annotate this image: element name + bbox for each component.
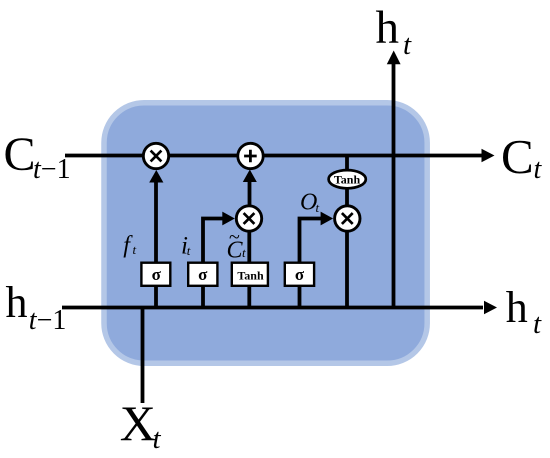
arrowhead Ot into multiply-3 (321, 212, 334, 226)
svg-text:t: t (133, 242, 137, 257)
gate box sigma-1 (forget) (141, 263, 170, 286)
wire multiply-2 to add (248, 181, 252, 206)
wire Xt input vertical (141, 308, 145, 404)
gate box Tanh (candidate) (232, 263, 268, 286)
wire h-line (hidden state, horizontal bottom) (62, 306, 483, 310)
svg-text:h: h (6, 278, 28, 327)
arrowhead ft into multiply-1 (149, 170, 163, 183)
svg-text:t−1: t−1 (33, 154, 71, 185)
wire output gate Ot with elbow (300, 219, 325, 308)
svg-text:t: t (242, 245, 246, 260)
svg-text:Tanh: Tanh (334, 173, 361, 187)
arrowhead it into multiply-2 (222, 212, 235, 226)
wire candidate C~t vertical (247, 206, 251, 308)
svg-text:t: t (533, 308, 542, 340)
svg-text:t: t (153, 423, 162, 455)
tanh ellipse (329, 170, 366, 188)
svg-text:t: t (403, 29, 412, 61)
wire C-line (cell state, horizontal top) (65, 154, 483, 158)
svg-text:h: h (376, 2, 400, 54)
svg-text:σ: σ (198, 265, 208, 284)
wire tanh branch vertical (C-line to h-line) (345, 156, 349, 308)
wire input gate it with elbow (203, 219, 226, 308)
svg-text:Tanh: Tanh (237, 269, 264, 283)
svg-text:t: t (316, 200, 320, 215)
gate box sigma-2 (input) (188, 263, 217, 286)
svg-text:σ: σ (152, 265, 162, 284)
svg-text:σ: σ (295, 265, 305, 284)
svg-text:~: ~ (229, 227, 240, 249)
multiply node 3 (output) (335, 206, 360, 231)
svg-text:C: C (4, 128, 36, 181)
svg-text:X: X (120, 395, 156, 451)
arrowhead h-line to ht (484, 301, 497, 314)
arrowhead into add (243, 170, 257, 183)
arrowhead ht up (387, 51, 401, 65)
wire forget gate ft vertical (154, 181, 158, 308)
svg-text:t−1: t−1 (29, 305, 67, 336)
add node (238, 143, 263, 168)
svg-text:C: C (501, 129, 534, 184)
svg-text:t: t (534, 154, 543, 185)
LSTM cell body (rounded rectangle) (104, 103, 427, 364)
multiply node 2 (input) (236, 206, 261, 231)
gate box sigma-3 (output) (285, 263, 314, 286)
wire ht vertical (output up) (392, 63, 396, 308)
svg-text:t: t (187, 243, 191, 258)
arrowhead C-line to Ct (482, 149, 495, 162)
multiply node 1 (forget) (143, 143, 168, 168)
svg-text:h: h (506, 283, 528, 332)
